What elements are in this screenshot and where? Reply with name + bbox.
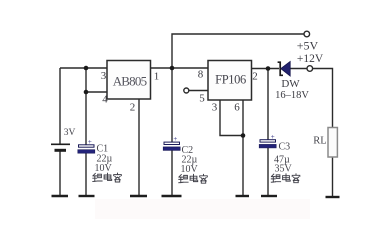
wire C2 riser	[171, 68, 173, 142]
wire battery positive to U1 pin 3	[60, 67, 107, 69]
IC U2 FP106	[208, 61, 252, 101]
ground C3	[261, 195, 277, 197]
wire U1 pin 4 stub	[86, 91, 107, 93]
svg-text:3: 3	[212, 102, 218, 114]
IC U1 AB805	[107, 61, 151, 100]
svg-text:6: 6	[234, 102, 240, 114]
svg-text:16–18V: 16–18V	[275, 90, 309, 101]
wire C2 to ground	[171, 150, 173, 196]
node U2 pin 5 open terminal	[184, 88, 189, 93]
capacitor C1	[78, 138, 95, 153]
label C3 tantalum (CJK)	[271, 174, 300, 183]
svg-text:2: 2	[252, 71, 258, 83]
junction C3 riser / +12V net	[266, 66, 271, 71]
label C1 tantalum (CJK)	[93, 173, 122, 182]
svg-text:FP106: FP106	[215, 73, 246, 87]
wire battery negative to ground	[59, 151, 61, 196]
wire +5V rail	[172, 34, 304, 68]
svg-text:AB805: AB805	[113, 74, 147, 89]
wire U2 pin 2 to diode anode	[252, 68, 279, 70]
svg-text:3: 3	[101, 70, 107, 82]
label C2 tantalum (CJK)	[179, 174, 208, 183]
junction C2 riser / +5V net	[170, 66, 175, 71]
junction C1 riser / pin 3 wire	[84, 66, 89, 71]
wire RL to ground	[332, 157, 334, 197]
svg-text:+5V: +5V	[297, 39, 319, 53]
wire U1 pin 1 to U2 pin 8	[150, 67, 208, 69]
wire diode cathode to +12V terminal	[291, 68, 308, 70]
wire U2 pin 6 to ground	[242, 100, 244, 196]
svg-text:10V: 10V	[181, 164, 199, 175]
node +12V output terminal	[307, 66, 313, 72]
svg-text:8: 8	[198, 69, 204, 81]
resistor RL	[328, 128, 337, 158]
ground C1	[79, 195, 95, 197]
svg-text:2: 2	[130, 102, 136, 114]
ground RL	[326, 196, 340, 198]
ground battery	[52, 195, 69, 197]
svg-text:10V: 10V	[95, 163, 113, 174]
svg-text:4: 4	[102, 94, 108, 106]
svg-text:1: 1	[154, 71, 160, 83]
wire U2 pin 3 to pin 6 net	[220, 100, 243, 136]
wire C1 riser	[85, 68, 87, 145]
svg-text:35V: 35V	[275, 164, 293, 175]
capacitor C3	[259, 133, 276, 148]
wire U1 pin 2 to ground	[138, 99, 140, 196]
zener diode DW	[278, 61, 291, 76]
wire C1 to ground	[85, 153, 87, 196]
node +5V output terminal	[304, 31, 310, 37]
ground U2 pin 6	[236, 195, 250, 197]
wire C3 to ground	[267, 148, 269, 197]
svg-text:DW: DW	[281, 78, 300, 90]
wire +12V terminal to RL	[313, 69, 333, 128]
junction C1 riser / pin 4 wire	[84, 90, 89, 95]
wire battery riser	[59, 68, 61, 144]
svg-text:+12V: +12V	[297, 53, 324, 65]
ground C2	[162, 195, 182, 197]
wire C3 riser	[267, 69, 269, 141]
capacitor C2	[163, 135, 180, 150]
wire U2 pin 5 stub	[189, 90, 208, 92]
svg-text:3V: 3V	[64, 128, 76, 138]
svg-text:C3: C3	[279, 142, 291, 153]
junction pin 3 / pin 6 net	[241, 133, 246, 138]
ground U1 pin 2	[130, 195, 147, 197]
battery BT1 3V	[51, 144, 70, 150]
svg-text:RL: RL	[313, 136, 326, 147]
svg-text:5: 5	[199, 93, 205, 105]
